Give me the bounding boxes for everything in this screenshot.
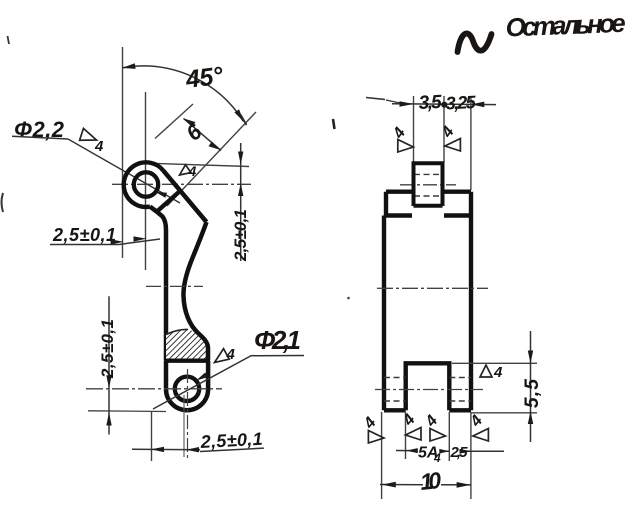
arrow tip down at y=388.3	[106, 375, 111, 388]
arrow at x=146	[134, 236, 147, 241]
svg-text:10: 10	[419, 467, 443, 495]
arrow arc right end	[234, 109, 243, 121]
dash tail left of 3,5	[366, 98, 385, 100]
arrow dim6 lower	[209, 142, 221, 151]
arrow bottom at 186	[186, 447, 199, 452]
hatch section fill	[166, 329, 208, 359]
centerline horizontal mid shaft y=285.5	[146, 285, 203, 287]
svg-text:45°: 45°	[183, 62, 225, 95]
dimension tail right	[468, 450, 504, 452]
arm upper edge	[163, 171, 206, 222]
svg-text:Φ2,1: Φ2,1	[254, 325, 301, 355]
extension bottom right x=470.9	[470, 412, 472, 499]
centerline bottom hole vertical	[187, 369, 189, 460]
arrow tip right at 413.5	[400, 101, 414, 107]
arrow leader phi2,1	[196, 373, 208, 381]
stray dot 2	[333, 119, 335, 129]
main outline: boss arc around top hole	[124, 162, 164, 207]
top hole phi2,2	[134, 172, 158, 196]
arrow tip up at y=412.5	[106, 413, 111, 426]
leader line phi2,2 to hole	[68, 139, 180, 203]
extension tab right x=444	[443, 96, 445, 162]
leader phi2,1 underline and line	[153, 356, 304, 410]
finish mark v4 bottom #1	[360, 414, 384, 443]
svg-text:4: 4	[493, 364, 503, 381]
svg-text:3,25: 3,25	[445, 92, 477, 114]
centerline bottom hole horizontal	[86, 388, 222, 390]
svg-text:2,5±0,1: 2,5±0,1	[52, 225, 116, 245]
right concave edge from knee	[183, 222, 208, 360]
extension bottom left x=381.6	[381, 412, 383, 499]
arrow tip down at y=164.5	[238, 152, 243, 165]
dimension line 3,5 3,25	[392, 103, 496, 106]
bottom hole phi2,1	[175, 377, 199, 401]
centerline horizontal top hole axis y=184	[112, 183, 251, 185]
slot outline	[406, 363, 450, 410]
finish mark v4 left of tab	[390, 125, 414, 152]
extension tab left x=413.5	[413, 96, 415, 162]
arrow at 471 pointing right	[460, 449, 472, 454]
arrow 10 left	[382, 482, 396, 488]
centerline vertical top hole x=145.5	[145, 92, 147, 270]
dimension mid line	[441, 450, 450, 452]
centerline top hole axis in right view	[400, 184, 456, 186]
bottom boss outline	[166, 361, 208, 411]
extension line bottom tangent y=411	[88, 410, 166, 413]
hatch bottom line / boss top	[164, 359, 210, 363]
arrow tip left at 471.3	[471, 102, 484, 108]
extension x=151.5 below bottom boss	[151, 411, 153, 461]
extension slot top right y=363.3	[452, 362, 537, 364]
underline dim top-left	[50, 239, 160, 245]
svg-text:3,5: 3,5	[418, 92, 442, 114]
hidden lines top hole in tab	[414, 174, 442, 196]
finish mark v4 on phi2,1 leader	[211, 349, 229, 366]
centerline mid body y=296.8	[377, 287, 488, 289]
leader underline phi2,2	[12, 136, 68, 139]
centerline vertical 45deg reference x=122.5	[122, 47, 124, 258]
dimension 5A4 line	[396, 450, 409, 452]
hatch top boundary	[166, 329, 188, 334]
arrow 5A4 left	[406, 448, 418, 453]
dimension 10 line left	[380, 484, 423, 486]
svg-text:4: 4	[188, 163, 197, 179]
extension x=185 below bottom hole	[183, 395, 185, 457]
dimension arc 45deg	[122, 66, 243, 122]
underline bottom label	[200, 448, 264, 451]
arrow dim6 upper	[184, 118, 196, 127]
dimension 10 line right	[441, 484, 471, 486]
tilde symbol	[458, 33, 492, 52]
stray mark left edge	[2, 193, 4, 212]
arrow bottom at 151	[151, 447, 164, 452]
extension slot right x=449.3	[448, 412, 450, 461]
arrow tip up at y=183	[238, 183, 243, 196]
finish mark v4 bottom #3	[422, 412, 446, 441]
dot at 444	[441, 102, 447, 108]
tab outline	[414, 163, 443, 206]
stray dot 1	[347, 297, 350, 300]
finish mark v4 on arm	[180, 165, 192, 175]
finish mark v4 left of tab right edge	[438, 124, 460, 151]
neck S-curve to shaft left edge	[150, 207, 166, 360]
dimension line 6	[184, 118, 222, 150]
arrow arc left end	[122, 63, 135, 69]
dimension 2,5+-0,1 right side vertical line	[240, 143, 242, 261]
svg-text:5,5: 5,5	[522, 379, 543, 408]
inner corner line arm to neck	[158, 191, 181, 211]
stray tick top-left	[8, 36, 10, 44]
svg-text:4: 4	[94, 138, 104, 155]
centerline bottom hole axis right view	[375, 389, 483, 391]
boundary line for dim 6 (parallel to 45deg line)	[155, 104, 193, 139]
arrow 5,5 top	[528, 351, 533, 364]
svg-text:4: 4	[226, 346, 236, 363]
arrow mid right	[439, 449, 449, 454]
arrow 5,5 bottom	[528, 411, 533, 424]
hidden lines bottom hole	[384, 378, 471, 402]
finish mark v4 near phi2,2	[80, 128, 99, 145]
dimension 2,5+-0,1 left-bottom vertical line	[108, 296, 110, 434]
arrow at x=123.6	[111, 239, 124, 244]
dimension 5,5 vertical line	[530, 331, 532, 442]
body outline	[384, 192, 471, 411]
finish mark v4 bottom #2	[399, 411, 421, 440]
dimension line bottom 2,5	[132, 448, 200, 451]
arrow leader phi2,2	[155, 192, 167, 198]
extension slot left x=405.5	[405, 412, 407, 459]
45deg construction line	[167, 112, 256, 206]
end tick on 45deg line	[241, 115, 247, 126]
extension body bottom right y=412.8	[470, 412, 537, 414]
svg-text:2,5±0,1: 2,5±0,1	[231, 209, 250, 262]
svg-text:Остальное: Остальное	[505, 8, 626, 43]
tab bottom line	[414, 204, 443, 208]
finish mark v4 right of slot top	[480, 364, 503, 381]
arrow 10 right	[457, 482, 471, 488]
extension line boss top y=164	[151, 163, 249, 166]
svg-text:2,5±0,1: 2,5±0,1	[98, 319, 117, 379]
finish mark v4 bottom #4	[467, 412, 489, 441]
extension body right x=470.9	[470, 96, 472, 190]
